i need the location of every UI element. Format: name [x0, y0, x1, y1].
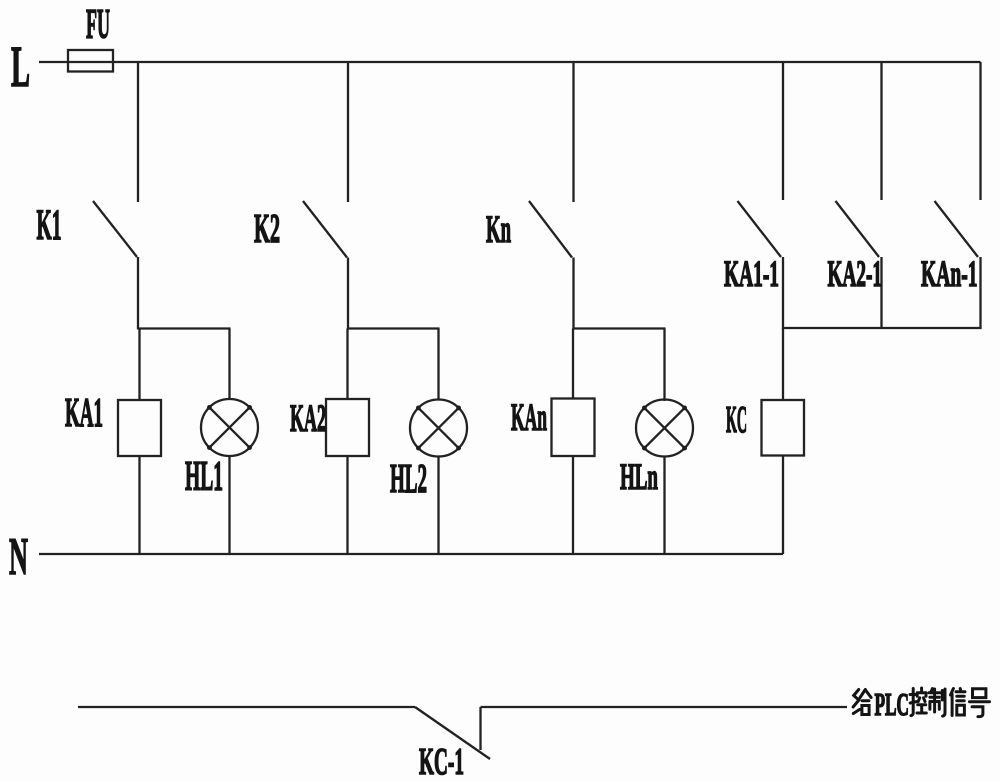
svg-text:L: L [11, 34, 30, 99]
svg-text:KAn-1: KAn-1 [921, 254, 978, 295]
svg-text:K2: K2 [254, 205, 280, 251]
svg-text:PLC: PLC [875, 686, 910, 722]
svg-text:K1: K1 [37, 202, 62, 249]
svg-text:Kn: Kn [486, 208, 511, 251]
svg-text:KAn: KAn [511, 396, 547, 439]
svg-text:KC-1: KC-1 [419, 741, 464, 782]
svg-text:HL1: HL1 [185, 454, 223, 500]
svg-text:KA2: KA2 [290, 397, 326, 440]
svg-text:KA1: KA1 [65, 389, 103, 435]
svg-text:HL2: HL2 [390, 455, 427, 501]
svg-text:N: N [9, 528, 28, 586]
svg-text:FU: FU [86, 2, 110, 48]
svg-text:KC: KC [726, 399, 747, 441]
svg-text:KA1-1: KA1-1 [724, 254, 779, 295]
svg-text:HLn: HLn [620, 457, 658, 498]
svg-text:KA2-1: KA2-1 [828, 254, 883, 295]
